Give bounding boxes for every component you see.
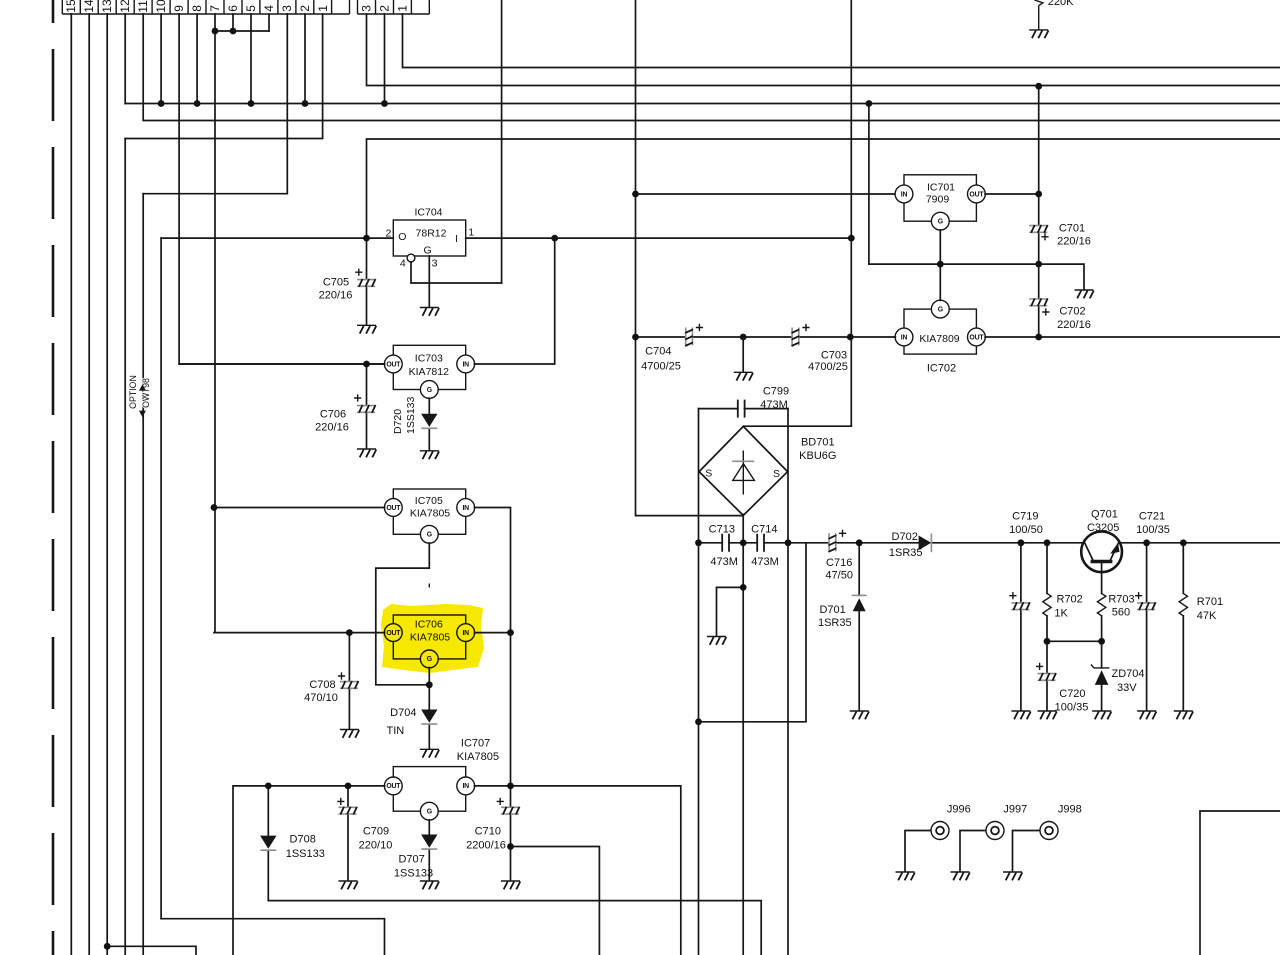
ground ZD704 <box>1092 711 1111 719</box>
capacitor C719 <box>1009 511 1043 711</box>
wire pin14 column <box>88 14 90 955</box>
svg-text:IN: IN <box>901 334 908 341</box>
connector CN2 body <box>358 0 430 14</box>
wire IC701 in row <box>636 193 896 195</box>
svg-text:1SR35: 1SR35 <box>889 547 923 559</box>
svg-text:D707: D707 <box>398 854 424 866</box>
wire C710 gnd-side run <box>511 847 600 955</box>
svg-text:5: 5 <box>244 5 258 12</box>
svg-text:G: G <box>424 245 432 257</box>
jack J998 <box>1013 804 1082 872</box>
resistor R703 560 <box>1097 593 1134 641</box>
wire C716 T down <box>699 543 807 722</box>
svg-text:IN: IN <box>462 783 469 790</box>
svg-text:4: 4 <box>400 258 406 270</box>
svg-text:100/50: 100/50 <box>1009 524 1043 536</box>
wire rail right of Q701 <box>1119 542 1280 544</box>
svg-text:IC707: IC707 <box>461 737 490 749</box>
diode D702 1SR35 <box>859 531 1084 559</box>
capacitor C710 <box>466 798 519 881</box>
capacitor C799 <box>738 385 789 417</box>
diode D704 TIN <box>387 685 438 749</box>
svg-text:1: 1 <box>395 5 409 12</box>
wire C704 C703 row <box>636 336 896 338</box>
wire IC701 out row <box>985 193 1039 195</box>
diode D701 1SR35 <box>818 543 867 711</box>
wire CN2 pin2 stub <box>384 14 386 104</box>
wire IC707 out row <box>233 786 385 955</box>
regulator IC704 78R12 <box>393 207 465 257</box>
ground C704 tap <box>734 372 753 380</box>
wire IC704 pin4 jog <box>411 262 502 283</box>
wire C704 mid gnd tap <box>742 337 744 372</box>
svg-text:G: G <box>427 387 432 394</box>
transistor Q701 C3205 <box>1081 509 1122 573</box>
wire pin7-6-4 tie <box>215 30 269 32</box>
svg-text:7909: 7909 <box>926 194 950 206</box>
capacitor C704 <box>641 324 703 373</box>
svg-text:C701: C701 <box>1059 223 1085 235</box>
regulator IC706 KIA7805 <box>384 615 474 668</box>
svg-text:C708: C708 <box>309 679 335 691</box>
ground R701 <box>1174 711 1193 719</box>
ground G rail <box>1075 290 1094 298</box>
svg-text:4700/25: 4700/25 <box>641 361 681 373</box>
ground J997 <box>951 872 970 880</box>
wire pin5 stub <box>250 14 252 104</box>
svg-text:C714: C714 <box>751 523 777 535</box>
svg-text:J996: J996 <box>947 804 971 816</box>
wire gnd jog row <box>717 587 744 636</box>
svg-text:G: G <box>427 532 432 539</box>
svg-text:J998: J998 <box>1058 804 1082 816</box>
svg-text:4700/25: 4700/25 <box>808 361 848 373</box>
svg-text:IN: IN <box>462 361 469 368</box>
svg-text:D708: D708 <box>290 834 316 846</box>
svg-text:3: 3 <box>359 5 373 12</box>
capacitor C714 <box>751 523 779 567</box>
wire pin6 stub <box>232 14 234 31</box>
wire C716 row <box>788 542 859 544</box>
svg-text:1K: 1K <box>1054 608 1068 620</box>
ground jog <box>707 637 726 645</box>
svg-text:S: S <box>705 468 712 480</box>
svg-text:1SR35: 1SR35 <box>818 617 852 629</box>
svg-text:R701: R701 <box>1197 596 1223 608</box>
board edge dashed line <box>52 0 55 955</box>
svg-text:C713: C713 <box>709 523 735 535</box>
connector CN1 body <box>62 0 349 14</box>
wire column 635 <box>636 0 744 516</box>
wire pin13 column <box>106 14 108 955</box>
OPTION arrows <box>139 384 146 417</box>
diode D720 1SS133 <box>392 396 437 450</box>
svg-text:OUT: OUT <box>969 334 984 341</box>
svg-text:KIA7805: KIA7805 <box>410 508 450 520</box>
wire 12V bottom jog <box>161 919 384 955</box>
ground C719 <box>1011 711 1030 719</box>
svg-text:473M: 473M <box>760 399 788 411</box>
wire BD701 plus riser <box>743 425 851 427</box>
svg-text:3: 3 <box>432 258 438 270</box>
wire bus row <box>125 103 1280 105</box>
capacitor C706 <box>315 364 375 449</box>
wire BD701 top loop with C799 <box>699 408 789 410</box>
svg-text:C720: C720 <box>1059 688 1085 700</box>
wire BD701 right loop <box>787 409 789 955</box>
wire C713 C714 row <box>699 542 789 544</box>
svg-text:15: 15 <box>64 0 78 13</box>
svg-text:J997: J997 <box>1003 804 1027 816</box>
ground J998 <box>1003 872 1022 880</box>
svg-text:2: 2 <box>298 5 312 12</box>
bottom right box <box>1200 811 1280 955</box>
svg-text:D702: D702 <box>892 531 918 543</box>
capacitor C701 <box>1029 194 1091 264</box>
ground J996 <box>896 872 915 880</box>
svg-text:IC704: IC704 <box>414 207 442 219</box>
svg-text:473M: 473M <box>710 556 738 568</box>
capacitor C720 <box>1036 641 1088 713</box>
capacitor C713 <box>709 523 738 567</box>
regulator IC702 KIA7809 <box>895 300 985 354</box>
regulator IC701 7909 <box>895 175 985 230</box>
svg-text:220/16: 220/16 <box>1057 319 1091 331</box>
svg-text:C710: C710 <box>475 826 501 838</box>
regulator IC703 KIA7812 <box>384 345 474 398</box>
ground C708 <box>340 730 359 738</box>
wire left run 143 <box>142 194 144 955</box>
wire IC706 G stem <box>428 668 430 685</box>
svg-text:C702: C702 <box>1059 306 1085 318</box>
svg-text:R703: R703 <box>1108 594 1134 606</box>
wire G rail <box>869 104 1084 290</box>
svg-text:2: 2 <box>377 5 391 12</box>
capacitor C709 <box>337 786 392 881</box>
svg-text:IC701: IC701 <box>927 182 955 194</box>
svg-text:100/35: 100/35 <box>1055 702 1089 714</box>
wire CN2 pin3 row <box>367 14 1280 86</box>
ground C710 <box>501 881 520 889</box>
wire pin7 column <box>214 14 216 633</box>
highlight over IC706 <box>381 604 484 673</box>
svg-text:IC705: IC705 <box>415 495 443 507</box>
wire IC706 in stub <box>474 632 510 634</box>
svg-text:1SS133: 1SS133 <box>286 848 325 860</box>
svg-text:OUT: OUT <box>386 361 401 368</box>
svg-text:220/16: 220/16 <box>1057 236 1091 248</box>
svg-text:KIA7812: KIA7812 <box>409 366 449 378</box>
svg-text:100/35: 100/35 <box>1136 524 1170 536</box>
capacitor C702 <box>1029 264 1091 337</box>
ground D704 <box>420 749 439 757</box>
svg-text:OUT: OUT <box>386 783 401 790</box>
resistor 220K top <box>1035 0 1075 30</box>
svg-text:KBU6G: KBU6G <box>799 450 836 462</box>
wire IC701 G stem <box>939 230 941 264</box>
wire 12V run 161 <box>160 238 162 919</box>
svg-text:IC702: IC702 <box>927 363 956 375</box>
svg-text:14: 14 <box>82 0 96 13</box>
svg-text:O: O <box>398 231 406 243</box>
svg-text:473M: 473M <box>751 556 779 568</box>
svg-text:OPTION: OPTION <box>128 375 138 409</box>
svg-text:1: 1 <box>316 5 330 12</box>
wire C701 bus riser <box>1038 86 1040 194</box>
zener ZD704 33V <box>1091 641 1145 710</box>
svg-text:560: 560 <box>1112 607 1130 619</box>
wire pin15 column <box>70 14 72 955</box>
svg-text:8: 8 <box>190 5 204 12</box>
wire pin2 stub <box>304 14 306 104</box>
wire IC704 pin1 row <box>466 237 852 239</box>
svg-text:D720: D720 <box>392 409 404 434</box>
wire IC704 pin3 stem <box>428 256 430 307</box>
wire pin13 bottom jog <box>107 946 196 955</box>
wire pin4 stub <box>268 14 270 31</box>
wire Q701 base stem <box>1101 563 1103 593</box>
ground C709 <box>339 881 358 889</box>
jack J997 <box>960 804 1027 872</box>
regulator IC705 KIA7805 <box>384 489 474 543</box>
svg-text:220/16: 220/16 <box>315 422 349 434</box>
svg-text:G: G <box>938 306 943 313</box>
capacitor C708 <box>304 633 358 729</box>
ground D720 <box>420 451 439 459</box>
svg-text:47K: 47K <box>1197 610 1217 622</box>
wire column 851 <box>850 0 852 426</box>
svg-text:7: 7 <box>208 5 222 12</box>
svg-text:OW798: OW798 <box>141 378 151 408</box>
wire IC707 in row <box>474 786 680 955</box>
svg-text:6: 6 <box>226 5 240 12</box>
svg-text:2200/16: 2200/16 <box>466 840 506 852</box>
ground C706 <box>357 449 376 457</box>
ground D701 <box>850 711 869 719</box>
svg-text:D704: D704 <box>390 707 416 719</box>
svg-text:C704: C704 <box>645 345 671 357</box>
capacitor C716 <box>825 530 853 582</box>
capacitor C705 <box>319 238 376 325</box>
svg-text:R702: R702 <box>1057 594 1083 606</box>
svg-text:C703: C703 <box>821 349 847 361</box>
jack J996 <box>905 804 971 872</box>
wire pin12 to bus <box>124 14 126 104</box>
bridge BD701 KBU6G <box>699 426 836 515</box>
capacitor C703 <box>792 324 848 373</box>
wire IC702 G stem <box>939 264 941 300</box>
wire IC703 out row <box>179 363 385 365</box>
svg-text:C3205: C3205 <box>1087 522 1119 534</box>
resistor R702 1K <box>1043 543 1083 642</box>
svg-text:9: 9 <box>172 5 186 12</box>
wire pin10 stub <box>160 14 162 104</box>
svg-text:C719: C719 <box>1012 511 1038 523</box>
svg-text:ZD704: ZD704 <box>1111 668 1144 680</box>
wire IC702 out rail <box>985 336 1280 338</box>
svg-text:47/50: 47/50 <box>825 569 853 581</box>
wire pin9 to IC703 <box>179 14 384 364</box>
regulator IC707 KIA7805 <box>384 737 499 820</box>
wire row 139 <box>367 139 1280 238</box>
svg-text:220K: 220K <box>1048 0 1074 8</box>
wire IC703 in riser <box>474 238 554 364</box>
svg-text:12: 12 <box>118 0 132 13</box>
svg-text:OUT: OUT <box>386 505 401 512</box>
wire bottom rail <box>268 901 761 955</box>
svg-text:BD701: BD701 <box>801 436 835 448</box>
wire R702 R703 tie <box>1047 640 1102 642</box>
svg-text:C709: C709 <box>363 826 389 838</box>
svg-text:G: G <box>938 219 943 226</box>
svg-text:I: I <box>455 233 458 245</box>
wire IC704 pin2 row <box>161 237 393 239</box>
svg-text:C799: C799 <box>763 385 789 397</box>
svg-text:10: 10 <box>154 0 168 13</box>
svg-text:KIA7809: KIA7809 <box>919 333 959 345</box>
wire pin11 row <box>143 14 1280 121</box>
svg-text:1SS133: 1SS133 <box>394 868 433 880</box>
diode D708 1SS133 <box>260 786 325 901</box>
resistor R701 47K <box>1179 543 1223 711</box>
wire IC705 in riser <box>474 508 510 808</box>
svg-text:S: S <box>773 468 780 480</box>
svg-text:4: 4 <box>262 5 276 12</box>
ground C721 <box>1137 711 1156 719</box>
wire IC706 out row <box>214 632 385 634</box>
svg-text:Q701: Q701 <box>1091 509 1118 521</box>
wire BD701 left loop <box>698 409 700 955</box>
stray mark <box>428 584 430 588</box>
svg-text:C706: C706 <box>320 409 346 421</box>
wire left run 125 <box>124 139 126 955</box>
ground C720 <box>1038 711 1057 719</box>
svg-text:D701: D701 <box>819 604 845 616</box>
ground IC704 pin3 <box>420 308 439 316</box>
svg-text:3: 3 <box>280 5 294 12</box>
svg-text:1SS133: 1SS133 <box>405 396 417 434</box>
svg-text:220/10: 220/10 <box>359 840 393 852</box>
wire IC705 G loop <box>376 543 430 685</box>
svg-text:13: 13 <box>100 0 114 13</box>
IC704 pin4 circle <box>407 254 415 262</box>
svg-text:KIA7805: KIA7805 <box>457 751 499 763</box>
ground C705 <box>357 325 376 333</box>
svg-text:IC703: IC703 <box>415 353 443 365</box>
diode D707 1SS133 <box>394 820 438 881</box>
ground D707 <box>420 881 439 889</box>
wire pin4 riser 501 <box>501 0 503 283</box>
svg-text:C721: C721 <box>1139 511 1165 523</box>
connector CN2 pin numbers <box>359 5 409 12</box>
svg-text:C705: C705 <box>323 277 349 289</box>
svg-text:C716: C716 <box>826 557 852 569</box>
wire pin8 stub <box>196 14 198 104</box>
wire IC705 out row <box>214 507 385 509</box>
svg-text:11: 11 <box>136 0 150 13</box>
svg-text:TIN: TIN <box>387 725 405 737</box>
svg-text:IN: IN <box>901 191 908 198</box>
wire pin3 jog <box>143 14 287 194</box>
wire BD701 bottom column <box>742 514 744 955</box>
svg-text:78R12: 78R12 <box>416 228 447 240</box>
capacitor C721 <box>1135 511 1170 711</box>
svg-text:OUT: OUT <box>969 191 984 198</box>
svg-text:IN: IN <box>462 505 469 512</box>
connector CN1 pin numbers <box>64 0 330 13</box>
svg-text:470/10: 470/10 <box>304 692 338 704</box>
wire CN2 pin1 row <box>403 14 1280 68</box>
svg-text:220/16: 220/16 <box>319 290 353 302</box>
svg-text:33V: 33V <box>1117 682 1137 694</box>
svg-text:1: 1 <box>468 227 474 239</box>
wire pin1 jog <box>125 14 322 139</box>
svg-text:G: G <box>427 809 432 816</box>
ground 220K <box>1029 30 1048 38</box>
